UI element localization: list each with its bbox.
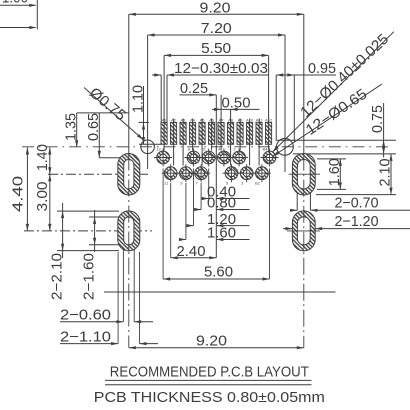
svg-text:A8: A8 [228,118,234,123]
svg-text:A4: A4 [190,118,196,123]
pad P6 centerline [211,119,213,145]
svg-text:B2: B2 [255,181,261,186]
slot S1 top-left outer/hatch [118,153,140,195]
dimension 7.20 line [148,34,285,36]
svg-text:B4: B4 [263,147,269,152]
svg-text:A3: A3 [181,118,187,123]
via at x=185.9 [180,167,193,180]
wire slot drill left ext [122,249,124,322]
wire board edge line [104,291,336,293]
svg-text:A2: A2 [171,118,177,123]
svg-text:1.10: 1.10 [129,85,146,113]
dimension 2-1.60 line [94,210,96,252]
wire pad top tick for 1.10 [139,121,150,123]
hole H2 phi0.95 right [277,138,294,155]
pad P3 [180,122,186,144]
pad P10 [246,122,252,144]
pad P4 centerline [192,119,194,145]
svg-text:1.40: 1.40 [34,144,51,171]
wire via ext x=201.1 [200,183,202,210]
dimension 2.10 line [390,154,392,195]
wire pad7 center extension [220,95,222,123]
pad P2 centerline [173,119,175,145]
pad P11 [256,122,262,144]
dimension 2-2.10 line [62,203,64,258]
wire pad P9 centerline stub [239,144,241,150]
dimension 2-0.70 line [290,209,297,211]
via at x=231.5 [225,167,238,180]
wire pad bottom extension for 1.10 [139,143,161,145]
svg-text:A6: A6 [209,118,215,123]
svg-text:2.10: 2.10 [376,159,393,187]
svg-text:1.35: 1.35 [63,113,80,141]
wire pad P3 centerline stub [182,144,184,165]
svg-text:0.65: 0.65 [85,113,102,141]
pad P12 [265,122,271,144]
centerline bottom ovals dash y=230.9 [24,230,152,232]
svg-text:2−1.60: 2−1.60 [80,253,97,300]
pad P8 [227,122,233,144]
svg-text:2−1.20: 2−1.20 [335,213,379,230]
wire hole bottom / oval top reference [293,153,396,155]
svg-text:0.25: 0.25 [180,80,208,97]
pad P2 [170,122,176,144]
wire top-left vertical extension [36,0,38,30]
dimension 2-1.20 line [283,228,292,230]
wire pad8 center extension [230,109,232,122]
wire oval2 drill top reference [89,216,124,218]
wire via ext x=185.9 [185,183,187,240]
svg-text:5.60: 5.60 [204,263,233,280]
svg-text:1.60: 1.60 [207,225,236,242]
pad P5 centerline [201,119,203,145]
dimension 4.40 line [26,148,28,231]
dimension 0.50 line [212,108,260,110]
pad P1 [161,122,167,144]
dimension 2-1.10 line [60,343,118,345]
dimension 9.20 bottom line [129,347,304,349]
svg-text:0.50: 0.50 [222,95,251,112]
svg-text:12−0.30±0.03: 12−0.30±0.03 [174,60,268,77]
hole H1 phi0.75 left [141,140,155,154]
wire pad1 right edge extension [166,75,168,122]
wire pad P8 centerline stub [230,144,232,165]
via at x=239.1 [233,151,246,164]
svg-text:A9: A9 [238,118,244,123]
wire pad P6 centerline stub [211,144,213,150]
leader line phi0.75 to left hole [84,88,143,140]
wire slot drill right ext [133,249,135,322]
wire via ext x=269.5 [269,169,271,280]
svg-text:A1: A1 [162,118,168,123]
wire right drill right edge extension [309,193,311,210]
slot S4 bottom-right drill [297,217,310,245]
svg-text:1.60: 1.60 [326,158,343,186]
centerline right ovals vertical dash [303,154,305,348]
wire right oval drill bottom reference [317,188,346,190]
via at x=193.5 [187,151,200,164]
via at x=261.9 [256,167,269,180]
via at x=246.7 [240,167,253,180]
wire pad P5 centerline stub [201,144,203,165]
svg-text:9.20: 9.20 [200,0,231,17]
slot S3 top-right outer/hatch [292,153,315,195]
dimension 0.75 line [383,103,385,158]
slot S2 bottom-left drill [124,217,134,245]
pad P7 centerline [220,119,222,145]
svg-text:0.80: 0.80 [207,195,236,212]
wire 0.95 right extension [293,75,295,142]
dimension 1.20 line [187,225,194,227]
svg-text:A5: A5 [200,118,206,123]
dimension 1.60b line [179,239,186,241]
wire top-left lower arrow line [0,27,36,29]
dimension 0.65 line [98,113,100,158]
svg-text:2−0.70: 2−0.70 [335,195,379,212]
dimension 9.20 top line [129,13,304,15]
svg-text:3.00: 3.00 [34,182,51,212]
wire via ext x=193.5 [193,169,195,226]
dimension 3.00 line [49,174,51,231]
svg-text:5.50: 5.50 [201,40,231,57]
wire oval2 bottom reference [57,250,119,252]
svg-text:0.75: 0.75 [369,105,386,133]
slot S3 top-right drill [297,159,310,189]
wire 0.95 left extension [275,75,277,141]
wire 9.20 left extension [128,14,130,153]
wire pad P11 centerline stub [258,144,260,165]
dimension 5.60 line [163,278,269,280]
wire pad P1 centerline stub [163,144,165,150]
svg-text:7.20: 7.20 [201,20,232,37]
wire via ext x=208.7 [208,169,210,199]
centerline left ovals vertical dash [128,154,130,348]
centerline horizontal dash-dot y=146.8 [22,146,391,148]
wire slot outer left ext [117,252,119,344]
svg-text:4.40: 4.40 [10,176,27,212]
wire top-left upper arrow line [0,4,36,6]
pad P10 centerline [249,119,251,145]
pad P6 [208,122,214,144]
dimension 0.25 line [180,94,217,96]
wire pad1 left edge extension [160,75,162,122]
dimension 0.95 line [276,74,294,76]
wire via ext x=170.7 [170,183,172,258]
dimension 1.40 line [49,148,51,175]
pad P5 [199,122,205,144]
svg-text:RECOMMENDED P.C.B LAYOUT: RECOMMENDED P.C.B LAYOUT [110,364,309,381]
pad P3 centerline [182,119,184,145]
pad P1 centerline [163,119,165,145]
pad P7 [218,122,224,144]
pad P4 [189,122,195,144]
svg-text:2−2.10: 2−2.10 [48,253,65,300]
wire right drill left edge extension [296,193,298,210]
dimension 1.10 line [143,86,145,144]
pad P9 [237,122,243,144]
via at x=201.1 [195,167,208,180]
wire pad P10 centerline stub [249,144,251,165]
wire 7.20 left extension through hole [147,35,149,169]
centerline top ovals dash y=174.2 [48,173,150,175]
wire tick at top of 1.35/0.65 [77,112,129,114]
svg-text:A11: A11 [256,118,264,123]
slot S2 bottom-left outer/hatch [118,211,140,251]
wire oval1 bottom reference [316,194,396,196]
wire pad P12 centerline stub [268,144,270,150]
wire 5.50 right extension [268,55,270,122]
wire pad P7 centerline stub [220,144,222,150]
pad P9 centerline [239,119,241,145]
pad P12 centerline [268,119,270,145]
wire right oval drill top reference [317,158,346,160]
centerline right ovals horizontal tick bottom [287,230,320,232]
svg-text:A7: A7 [219,118,225,123]
dimension 1.35 line [76,113,78,147]
dimension 0.80 line [194,209,201,211]
title underline 2 [105,384,312,386]
wire oval2 drill bottom reference [89,244,124,246]
dimension 2.40 line [171,257,217,259]
leader line 12-phi0.40 [273,32,394,152]
slot S1 top-left drill [124,159,134,189]
leader line 12-phi0.65 [273,84,383,157]
svg-text:2.40: 2.40 [177,243,206,260]
wire hole top reference [277,139,396,141]
slot S4 bottom-right outer/hatch [292,211,315,251]
wire 5.50 left extension [163,55,165,122]
dimension 1.60 line [339,159,341,190]
svg-text:PCB THICKNESS 0.80±0.05mm: PCB THICKNESS 0.80±0.05mm [94,389,325,406]
wire slot outer right ext [139,252,141,344]
title underline 1 [105,379,312,381]
svg-text:2−1.10: 2−1.10 [60,329,111,346]
svg-text:2−0.60: 2−0.60 [60,307,111,324]
via at x=269.5 [263,151,276,164]
wire oval2 top reference [57,210,119,212]
via at x=163.1 [157,151,170,164]
wire via row1 reference line [99,157,122,159]
wire pad P2 centerline stub [173,144,175,165]
dimension 12-0.30 line with tails [152,74,161,76]
dimension 5.50 line [164,54,269,56]
wire via ext x=163.1 [162,169,164,280]
via at x=208.7 [202,151,215,164]
svg-text:12: 12 [156,147,161,152]
via at x=170.7 [164,167,177,180]
wire 7.20 right extension through hole [284,35,286,172]
pad P11 centerline [258,119,260,145]
wire pad P4 centerline stub [192,144,194,150]
svg-text:A12: A12 [265,118,273,123]
centerline right ovals horizontal tick top [289,173,321,175]
wire 9.20 right extension [303,14,305,153]
dimension 0.40 line [202,198,209,200]
svg-text:0.95: 0.95 [308,60,336,77]
pad P8 centerline [230,119,232,145]
via at x=223.9 [218,151,231,164]
dimension 2-0.60 line [60,321,123,323]
svg-text:A10: A10 [246,118,254,123]
wire centerline extension (footprint center) [215,95,217,258]
svg-text:9.20: 9.20 [196,333,227,350]
